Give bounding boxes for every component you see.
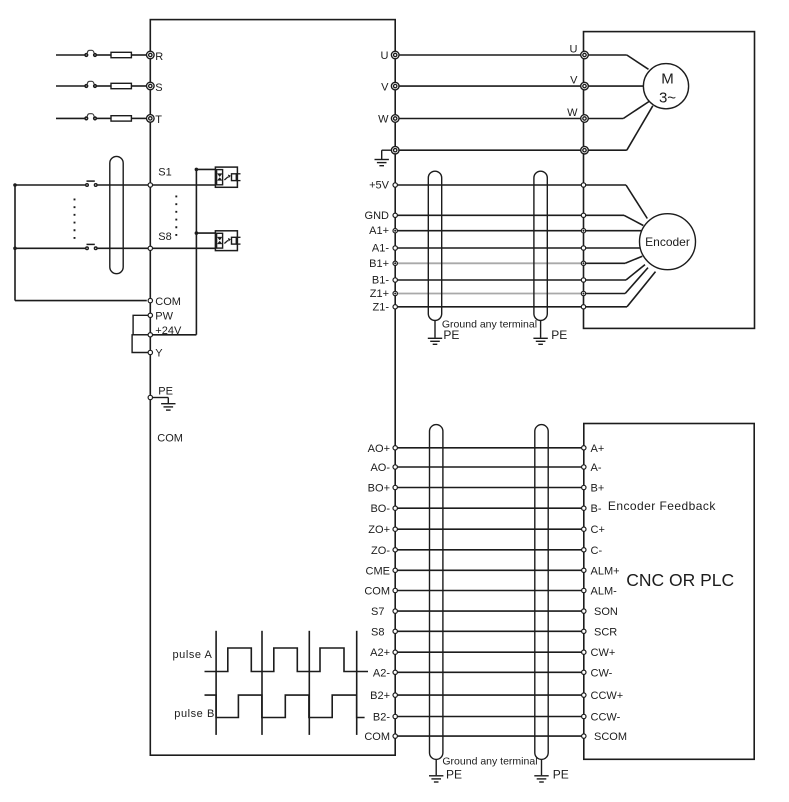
svg-text:Ground any terminal: Ground any terminal <box>442 318 537 330</box>
svg-text:CME: CME <box>366 565 390 577</box>
svg-text:COM: COM <box>364 731 390 743</box>
svg-text:U: U <box>381 50 389 62</box>
svg-text:V: V <box>381 81 389 93</box>
svg-text:C+: C+ <box>591 524 605 536</box>
svg-text:S1: S1 <box>158 167 171 179</box>
svg-text:CCW-: CCW- <box>591 712 621 724</box>
svg-text:Z1-: Z1- <box>373 301 390 313</box>
svg-text:S8: S8 <box>371 626 384 638</box>
svg-text:C-: C- <box>591 545 603 557</box>
svg-text:3~: 3~ <box>659 90 676 107</box>
svg-text:ZO-: ZO- <box>371 545 390 557</box>
svg-text:W: W <box>378 114 389 126</box>
svg-text:W: W <box>567 107 578 119</box>
svg-text:pulse A: pulse A <box>173 649 213 661</box>
svg-text:PE: PE <box>446 768 462 782</box>
svg-text:Encoder: Encoder <box>645 235 690 249</box>
svg-text:SON: SON <box>594 606 618 618</box>
svg-text:PE: PE <box>553 768 569 782</box>
svg-text:S: S <box>155 82 162 94</box>
svg-text:B+: B+ <box>591 483 605 495</box>
svg-text:ALM-: ALM- <box>591 586 618 598</box>
svg-text:ALM+: ALM+ <box>591 565 620 577</box>
svg-text:pulse B: pulse B <box>174 708 215 720</box>
svg-text:GND: GND <box>365 210 390 222</box>
svg-text:PE: PE <box>158 385 173 397</box>
svg-text:Ground any terminal: Ground any terminal <box>442 756 537 768</box>
svg-text:B1+: B1+ <box>369 258 389 270</box>
svg-text:BO+: BO+ <box>368 483 390 495</box>
svg-text:ZO+: ZO+ <box>368 524 390 536</box>
svg-text:PE: PE <box>551 328 567 342</box>
svg-text:A2+: A2+ <box>370 647 390 659</box>
svg-text:S8: S8 <box>158 231 171 243</box>
svg-text:V: V <box>570 75 578 87</box>
svg-text:B2+: B2+ <box>370 690 390 702</box>
svg-text:A+: A+ <box>591 443 605 455</box>
svg-text:B2-: B2- <box>373 712 390 724</box>
svg-text:U: U <box>570 44 578 56</box>
svg-text:BO-: BO- <box>370 503 390 515</box>
svg-text:A1+: A1+ <box>369 225 389 237</box>
svg-text:PW: PW <box>155 311 173 323</box>
svg-text:SCOM: SCOM <box>594 731 627 743</box>
svg-text:T: T <box>155 114 162 126</box>
svg-text:B-: B- <box>591 503 602 515</box>
svg-text:Y: Y <box>155 348 163 360</box>
svg-text:M: M <box>661 71 674 88</box>
svg-text:Encoder Feedback: Encoder Feedback <box>608 499 716 513</box>
svg-text:+5V: +5V <box>369 180 390 192</box>
svg-text:CNC OR PLC: CNC OR PLC <box>626 570 734 590</box>
svg-text:COM: COM <box>157 433 183 445</box>
svg-text:S7: S7 <box>371 606 384 618</box>
svg-text:CCW+: CCW+ <box>591 690 624 702</box>
svg-text:Z1+: Z1+ <box>370 288 389 300</box>
svg-text:COM: COM <box>155 296 181 308</box>
svg-text:A2-: A2- <box>373 667 390 679</box>
svg-text:R: R <box>155 51 163 63</box>
svg-text:AO-: AO- <box>370 462 390 474</box>
svg-text:B1-: B1- <box>372 275 389 287</box>
svg-text:A-: A- <box>591 462 602 474</box>
svg-text:CW+: CW+ <box>591 647 616 659</box>
svg-text:COM: COM <box>364 586 390 598</box>
svg-text:A1-: A1- <box>372 243 389 255</box>
svg-text:CW-: CW- <box>591 667 613 679</box>
svg-text:SCR: SCR <box>594 626 617 638</box>
svg-text:AO+: AO+ <box>368 443 390 455</box>
